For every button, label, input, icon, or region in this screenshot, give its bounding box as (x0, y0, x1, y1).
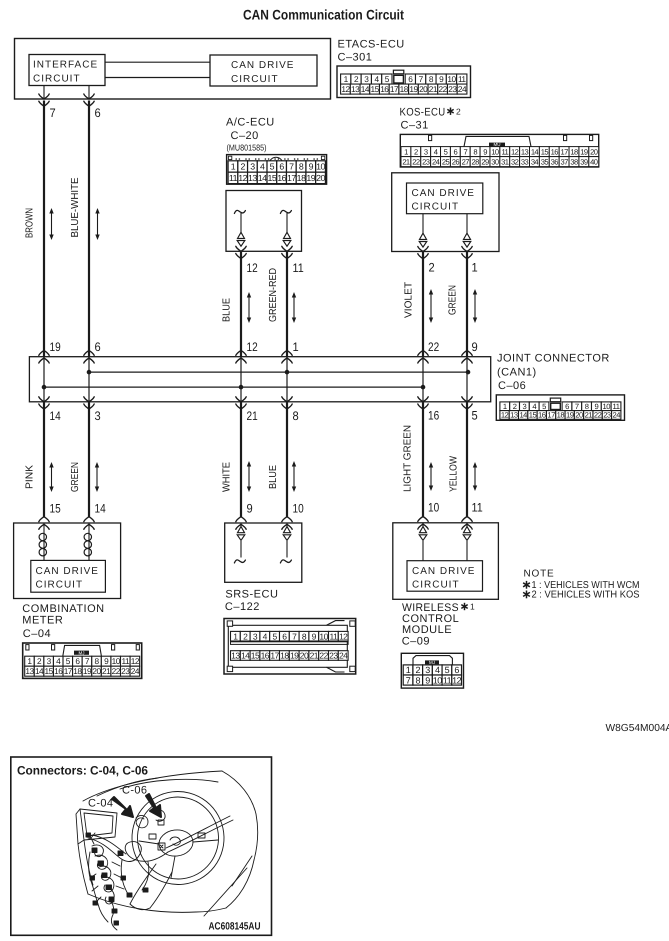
svg-text:23: 23 (121, 666, 130, 676)
svg-text:2: 2 (513, 402, 517, 411)
svg-text:3: 3 (425, 665, 430, 675)
svg-text:7: 7 (50, 106, 56, 120)
svg-text:C–04: C–04 (23, 628, 51, 640)
svg-text:METER: METER (22, 614, 63, 626)
svg-text:14: 14 (35, 666, 44, 676)
svg-text:12: 12 (452, 675, 462, 685)
svg-text:9: 9 (309, 162, 314, 172)
svg-text:10: 10 (112, 656, 121, 666)
svg-text:21: 21 (247, 409, 258, 423)
svg-text:17: 17 (560, 147, 568, 156)
svg-text:15: 15 (50, 502, 61, 516)
svg-text:C–122: C–122 (225, 601, 260, 613)
svg-text:CAN DRIVE: CAN DRIVE (412, 188, 475, 199)
svg-text:BLUE: BLUE (222, 298, 233, 322)
svg-text:27: 27 (462, 157, 470, 166)
svg-text:12: 12 (511, 147, 519, 156)
wire BLUE to SRS (282, 397, 292, 402)
svg-text:CIRCUIT: CIRCUIT (36, 580, 84, 591)
svg-text:(CAN1): (CAN1) (497, 367, 537, 379)
svg-text:17: 17 (287, 173, 296, 183)
svg-text:15: 15 (541, 147, 549, 156)
svg-text:11: 11 (121, 656, 129, 666)
svg-text:8: 8 (299, 162, 304, 172)
joint connector box (29, 357, 490, 402)
wire 7 BROWN from ETACS (43, 86, 45, 100)
svg-text:6: 6 (279, 162, 284, 172)
svg-text:8: 8 (585, 402, 589, 411)
svg-text:6: 6 (454, 665, 459, 675)
svg-text:23: 23 (448, 84, 457, 94)
coil x=44 (43, 523, 45, 533)
svg-text:A/C-ECU: A/C-ECU (226, 117, 275, 129)
svg-text:18: 18 (297, 173, 306, 183)
svg-text:(MU801585): (MU801585) (227, 143, 267, 153)
svg-text:29: 29 (481, 157, 489, 166)
connector location figure frame (11, 757, 272, 935)
svg-text:C-06: C-06 (122, 785, 147, 797)
connector C-301 pin grid (337, 66, 471, 98)
svg-text:YELLOW: YELLOW (449, 456, 460, 492)
svg-text:4: 4 (434, 147, 438, 156)
connector C-31 pin grid (400, 134, 598, 167)
SRS termination x=241 (240, 523, 242, 527)
connector C-09 pin grid (401, 653, 463, 688)
svg-text:BLUE: BLUE (268, 465, 279, 489)
svg-text:CIRCUIT: CIRCUIT (231, 74, 279, 85)
bus line CAN-H (89, 371, 468, 373)
svg-text:1: 1 (472, 261, 478, 275)
svg-text:30: 30 (491, 157, 499, 166)
svg-text:CAN DRIVE: CAN DRIVE (412, 566, 475, 577)
svg-text:21: 21 (429, 84, 438, 94)
svg-text:31: 31 (501, 157, 509, 166)
connector C-20 pin grid (227, 155, 327, 185)
svg-text:8: 8 (473, 147, 477, 156)
svg-text:3: 3 (95, 409, 101, 423)
svg-text:12: 12 (247, 261, 258, 275)
svg-text:6: 6 (95, 106, 101, 120)
CAN drive circuit box (ETACS) (210, 55, 317, 86)
svg-text:12: 12 (341, 84, 350, 94)
svg-text:13: 13 (248, 173, 257, 183)
joint connector pass-through x=241 (240, 357, 242, 402)
svg-text:33: 33 (521, 157, 529, 166)
svg-text:2: 2 (456, 107, 461, 117)
svg-text:12: 12 (339, 631, 348, 641)
svg-text:12: 12 (238, 173, 247, 183)
svg-text:20: 20 (419, 84, 428, 94)
wire PINK to combination meter (39, 397, 49, 402)
connector C-06 pin grid (496, 395, 624, 420)
svg-text:CIRCUIT: CIRCUIT (412, 580, 460, 591)
svg-text:C–06: C–06 (498, 380, 526, 392)
svg-text:38: 38 (570, 157, 578, 166)
svg-text:8: 8 (293, 409, 299, 423)
joint connector pass-through x=287 (286, 357, 288, 402)
svg-text:19: 19 (580, 147, 588, 156)
svg-text:SRS-ECU: SRS-ECU (225, 589, 278, 601)
svg-text:19: 19 (566, 411, 574, 420)
svg-text:40: 40 (590, 157, 598, 166)
svg-text:11: 11 (443, 675, 452, 685)
wire GREEN to combination meter (84, 397, 94, 402)
wire GREEN from KOS (462, 247, 472, 252)
svg-text:2: 2 (240, 162, 245, 172)
svg-text:JOINT CONNECTOR: JOINT CONNECTOR (497, 353, 610, 365)
svg-text:10: 10 (602, 402, 610, 411)
svg-text:16: 16 (277, 173, 286, 183)
svg-text:2: 2 (414, 147, 418, 156)
wire LIGHT GREEN to wireless (418, 397, 428, 402)
svg-text:14: 14 (361, 84, 370, 94)
svg-text:1: 1 (503, 402, 507, 411)
wire BLUE from A/C (236, 246, 246, 251)
interface circuit box (29, 55, 105, 86)
svg-text:19: 19 (306, 173, 315, 183)
connector C-122 pin grid (224, 619, 356, 675)
svg-text:GREEN-RED: GREEN-RED (268, 268, 279, 322)
svg-text:C-04: C-04 (88, 798, 113, 810)
svg-text:9: 9 (472, 340, 478, 354)
svg-text:14: 14 (241, 651, 250, 661)
svg-text:9: 9 (483, 147, 487, 156)
svg-text:1: 1 (406, 665, 411, 675)
svg-text:18: 18 (280, 651, 289, 661)
bus line CAN-L (44, 386, 423, 388)
svg-text:VIOLET: VIOLET (404, 282, 415, 318)
svg-text:17: 17 (547, 411, 555, 420)
svg-text:13: 13 (521, 147, 529, 156)
CAN drive circuit box (KOS) (407, 183, 483, 214)
CAN drive circuit box (wireless) (407, 561, 483, 592)
combination meter outer box (14, 523, 121, 599)
svg-text:13: 13 (25, 666, 34, 676)
svg-text:COMBINATION: COMBINATION (22, 603, 104, 615)
svg-text:24: 24 (339, 651, 348, 661)
svg-text:4: 4 (435, 665, 440, 675)
svg-text:6: 6 (454, 147, 458, 156)
svg-text:11: 11 (472, 501, 483, 515)
svg-text:24: 24 (458, 84, 467, 94)
svg-text:21: 21 (310, 651, 319, 661)
svg-text:9: 9 (595, 402, 599, 411)
svg-text:9: 9 (425, 675, 430, 685)
svg-text:13: 13 (510, 411, 518, 420)
svg-text:Connectors: C-04, C-06: Connectors: C-04, C-06 (17, 764, 148, 778)
svg-text:GREEN: GREEN (448, 285, 459, 315)
svg-text:7: 7 (289, 162, 294, 172)
svg-text:9: 9 (247, 502, 253, 516)
ETACS-ECU outer box (15, 39, 331, 100)
svg-text:35: 35 (541, 157, 549, 166)
svg-text:8: 8 (416, 675, 421, 685)
svg-text:ETACS-ECU: ETACS-ECU (338, 39, 405, 51)
svg-text:11: 11 (329, 631, 338, 641)
svg-text:6: 6 (565, 402, 569, 411)
svg-text:12: 12 (501, 411, 509, 420)
svg-text:3: 3 (424, 147, 428, 156)
svg-text:20: 20 (92, 666, 101, 676)
svg-text:15: 15 (45, 666, 54, 676)
wireless termination x=423 (422, 523, 424, 527)
svg-text:C–31: C–31 (401, 119, 429, 131)
coil x=89 (88, 523, 90, 533)
svg-text:16: 16 (551, 147, 559, 156)
svg-text:16: 16 (538, 411, 546, 420)
svg-text:2 : VEHICLES WITH KOS: 2 : VEHICLES WITH KOS (532, 590, 640, 601)
svg-text:20: 20 (575, 411, 583, 420)
svg-text:W8G54M004A: W8G54M004A (606, 723, 669, 734)
svg-text:19: 19 (290, 651, 299, 661)
wire WHITE to SRS (236, 397, 246, 402)
svg-text:NOTE: NOTE (524, 569, 555, 580)
svg-text:36: 36 (551, 157, 559, 166)
svg-text:17: 17 (270, 651, 279, 661)
joint connector pass-through x=44 (43, 357, 45, 402)
wire 6 BLUE-WHITE from ETACS (88, 86, 90, 100)
svg-text:C–09: C–09 (402, 636, 430, 648)
svg-text:20: 20 (316, 173, 325, 183)
svg-text:10: 10 (293, 502, 304, 516)
svg-text:4: 4 (260, 162, 265, 172)
svg-text:15: 15 (267, 173, 276, 183)
svg-text:GREEN: GREEN (70, 462, 81, 492)
svg-text:14: 14 (258, 173, 267, 183)
termination element KOS x=423 (422, 214, 424, 234)
svg-text:21: 21 (402, 157, 410, 166)
svg-text:BROWN: BROWN (25, 208, 36, 238)
svg-text:MODULE: MODULE (402, 624, 452, 636)
svg-text:16: 16 (54, 666, 63, 676)
svg-text:1: 1 (404, 147, 408, 156)
connector C-04 pin grid (23, 643, 142, 678)
svg-text:37: 37 (560, 157, 568, 166)
svg-text:C–301: C–301 (338, 52, 373, 64)
svg-text:4: 4 (532, 402, 536, 411)
svg-text:14: 14 (95, 502, 106, 516)
svg-text:28: 28 (472, 157, 480, 166)
KOS-ECU outer circuit box (392, 173, 499, 252)
svg-text:18: 18 (73, 666, 82, 676)
svg-text:21: 21 (585, 411, 593, 420)
svg-text:14: 14 (519, 411, 527, 420)
svg-text:11: 11 (293, 261, 304, 275)
bus junction dots (87, 370, 92, 375)
svg-text:23: 23 (603, 411, 611, 420)
svg-text:17: 17 (64, 666, 73, 676)
SRS termination x=287 (286, 523, 288, 527)
svg-text:23: 23 (422, 157, 430, 166)
svg-text:25: 25 (442, 157, 450, 166)
double arrows lower (51, 467, 53, 488)
svg-text:34: 34 (531, 157, 539, 166)
svg-text:10: 10 (433, 675, 443, 685)
svg-text:16: 16 (261, 651, 270, 661)
svg-text:18: 18 (400, 84, 409, 94)
svg-text:14: 14 (50, 409, 61, 423)
svg-text:1: 1 (293, 340, 299, 354)
svg-text:24: 24 (131, 666, 140, 676)
svg-text:10: 10 (447, 74, 456, 84)
svg-text:5: 5 (472, 409, 478, 423)
svg-text:14: 14 (531, 147, 539, 156)
svg-text:INTERFACE: INTERFACE (33, 60, 98, 71)
termination element at x=287 (280, 210, 291, 213)
svg-text:11: 11 (501, 147, 508, 156)
svg-text:CAN DRIVE: CAN DRIVE (231, 60, 294, 71)
svg-text:MJ: MJ (79, 650, 85, 655)
svg-text:22: 22 (594, 411, 602, 420)
svg-text:CIRCUIT: CIRCUIT (33, 74, 81, 85)
svg-text:2: 2 (429, 261, 435, 275)
svg-text:18: 18 (557, 411, 565, 420)
svg-text:11: 11 (458, 74, 466, 84)
svg-text:16: 16 (428, 409, 439, 423)
wire GREEN-RED from A/C (282, 246, 292, 251)
svg-text:39: 39 (580, 157, 588, 166)
svg-text:5: 5 (542, 402, 546, 411)
svg-text:1: 1 (231, 162, 236, 172)
svg-text:12: 12 (247, 340, 258, 354)
svg-text:10: 10 (491, 147, 499, 156)
joint connector pass-through x=467 (466, 357, 468, 402)
svg-text:16: 16 (380, 84, 389, 94)
wireless termination x=467 (466, 523, 468, 527)
svg-text:AC608145AU: AC608145AU (209, 921, 261, 933)
svg-text:10: 10 (428, 501, 439, 515)
CAN drive circuit box (comb meter) (31, 560, 106, 592)
svg-text:3: 3 (523, 402, 527, 411)
svg-text:19: 19 (50, 340, 61, 354)
wire YELLOW to wireless (462, 397, 472, 402)
svg-text:5: 5 (445, 665, 450, 675)
svg-text:22: 22 (438, 84, 447, 94)
svg-text:C–20: C–20 (231, 130, 259, 142)
svg-text:1: 1 (470, 602, 475, 612)
svg-text:21: 21 (102, 666, 111, 676)
svg-text:15: 15 (370, 84, 379, 94)
joint connector pass-through x=423 (422, 357, 424, 402)
svg-text:KOS-ECU: KOS-ECU (400, 107, 446, 119)
svg-text:18: 18 (570, 147, 578, 156)
svg-text:11: 11 (613, 402, 620, 411)
svg-text:BLUE-WHITE: BLUE-WHITE (70, 177, 81, 237)
wire VIOLET from KOS (418, 247, 428, 252)
svg-text:10: 10 (319, 631, 328, 641)
svg-text:15: 15 (251, 651, 260, 661)
svg-text:22: 22 (428, 340, 439, 354)
dashboard illustration (76, 771, 258, 930)
joint connector pass-through x=89 (88, 357, 90, 402)
svg-text:5: 5 (270, 162, 275, 172)
svg-text:10: 10 (316, 162, 325, 172)
SRS-ECU box (225, 523, 302, 582)
svg-text:24: 24 (432, 157, 440, 166)
svg-text:23: 23 (329, 651, 338, 661)
svg-text:22: 22 (112, 666, 121, 676)
svg-text:CAN Communication Circuit: CAN Communication Circuit (243, 7, 404, 23)
svg-text:20: 20 (300, 651, 309, 661)
svg-text:5: 5 (444, 147, 448, 156)
svg-text:7: 7 (463, 147, 467, 156)
double arrows upper (51, 213, 53, 236)
wire interface to can drive (105, 61, 210, 63)
svg-text:6: 6 (95, 340, 101, 354)
svg-text:12: 12 (131, 656, 140, 666)
svg-text:17: 17 (390, 84, 399, 94)
svg-text:WHITE: WHITE (222, 462, 233, 492)
svg-text:22: 22 (412, 157, 420, 166)
svg-text:22: 22 (319, 651, 328, 661)
termination element at x=241 (234, 210, 245, 213)
svg-text:19: 19 (409, 84, 418, 94)
svg-text:20: 20 (590, 147, 598, 156)
svg-text:26: 26 (452, 157, 460, 166)
svg-text:CAN DRIVE: CAN DRIVE (36, 566, 99, 577)
svg-text:11: 11 (229, 173, 238, 183)
svg-text:19: 19 (83, 666, 92, 676)
svg-text:3: 3 (250, 162, 255, 172)
wireless control module box (393, 523, 499, 600)
svg-text:CIRCUIT: CIRCUIT (412, 202, 460, 213)
svg-text:15: 15 (529, 411, 537, 420)
svg-text:24: 24 (613, 411, 621, 420)
termination element KOS x=467 (466, 214, 468, 234)
svg-text:13: 13 (231, 651, 240, 661)
svg-text:32: 32 (511, 157, 519, 166)
svg-text:PINK: PINK (25, 465, 36, 489)
svg-text:7: 7 (575, 402, 579, 411)
A/C-ECU circuit box (226, 191, 302, 252)
svg-text:LIGHT GREEN: LIGHT GREEN (403, 425, 414, 492)
svg-text:2: 2 (416, 665, 421, 675)
svg-text:7: 7 (406, 675, 411, 685)
svg-text:13: 13 (351, 84, 360, 94)
